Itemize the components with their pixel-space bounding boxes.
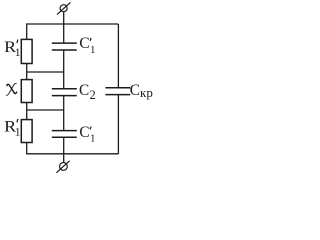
svg-text:C: C	[79, 35, 89, 52]
svg-text:2: 2	[90, 88, 96, 102]
svg-text:C: C	[79, 82, 89, 99]
svg-text:1: 1	[90, 44, 96, 56]
svg-text:1: 1	[15, 47, 21, 59]
svg-text:кр: кр	[140, 85, 153, 100]
svg-text:1: 1	[15, 127, 21, 139]
svg-text:C: C	[79, 124, 89, 141]
svg-text:C: C	[130, 82, 140, 99]
svg-text:1: 1	[90, 133, 96, 145]
